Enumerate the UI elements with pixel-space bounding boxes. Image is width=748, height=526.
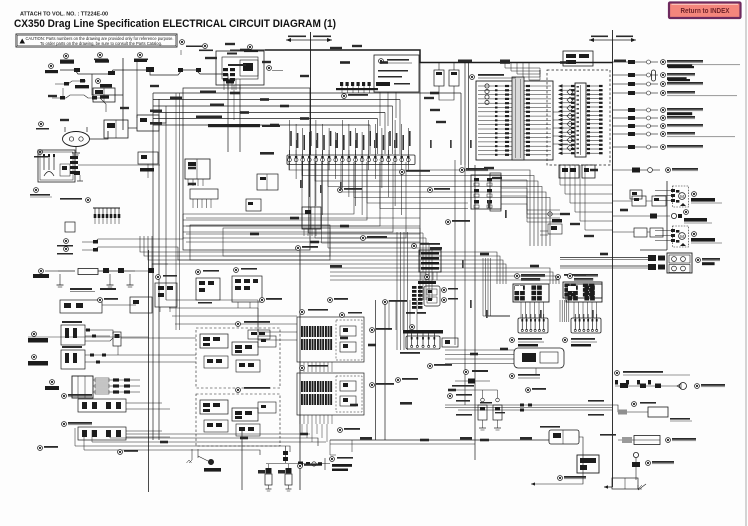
pin stack column bbox=[412, 286, 417, 289]
wire bundle: right side staircase to controller bbox=[468, 170, 530, 246]
wire: vertical trunk pair x462 x468 bbox=[464, 63, 466, 166]
ac connector plugs bbox=[648, 255, 656, 261]
hour meter chain bbox=[455, 380, 490, 382]
ECU pin rows left bbox=[559, 85, 575, 87]
inner routing box bbox=[223, 228, 330, 256]
right column extra smudge bars bbox=[668, 66, 694, 68]
long bundle to valve modules bbox=[140, 236, 497, 284]
wire bundle x397-407 vertical bbox=[396, 232, 398, 350]
V1 bottom label bbox=[510, 338, 515, 343]
engine stop unit box bbox=[65, 222, 75, 232]
SV0 bottom smudge bbox=[400, 352, 420, 354]
wire: mid vertical x300 bbox=[299, 250, 301, 490]
module2 right dashed bbox=[336, 376, 362, 412]
svg-text:M: M bbox=[680, 234, 684, 239]
junction cluster at bus head bbox=[340, 82, 343, 86]
CN-1 top label bbox=[470, 75, 475, 80]
left drops into bundle bbox=[109, 430, 111, 438]
start relay grid (engine room) bbox=[471, 175, 501, 209]
label near caution box bbox=[180, 40, 185, 45]
SV0 side box bbox=[442, 338, 458, 347]
module2 pins to bottom bundle bbox=[301, 424, 303, 434]
wiper link cluster x130 y300 bbox=[130, 297, 152, 313]
chain y98 bbox=[52, 95, 100, 98]
speaker label bbox=[695, 384, 700, 389]
connector row band outline bbox=[287, 155, 415, 165]
label bars top-left bbox=[60, 61, 74, 64]
long staircase bundle A bbox=[166, 300, 297, 316]
glow plug bus bbox=[93, 207, 120, 209]
upper small cluster y300 bbox=[60, 300, 102, 313]
wiper motor label bbox=[692, 232, 697, 237]
wire: bottom horizontal y444 bbox=[330, 443, 475, 445]
V2 solenoid bank bbox=[571, 318, 601, 333]
valve module V2 label bbox=[568, 274, 573, 279]
wire bundle ECU bottom to lower area bbox=[560, 165, 613, 185]
svg-text:M: M bbox=[680, 194, 684, 199]
wire bundle: bottom-left y433-450 bbox=[126, 433, 310, 435]
blower cluster small boxes bbox=[632, 196, 646, 206]
wire: heavy battery bus y62 bbox=[265, 50, 613, 63]
module2 bottom pin wires bbox=[299, 415, 301, 424]
sensor cluster CN35 bbox=[302, 207, 321, 229]
right column long underlines bbox=[667, 64, 740, 66]
ECU main tall connector bbox=[575, 83, 586, 157]
relay cluster RC2 x196 y278 bbox=[196, 270, 201, 275]
ECU bottom connector box 1 bbox=[559, 165, 579, 178]
starter aux marks bbox=[74, 171, 80, 175]
gps unit box bbox=[577, 455, 599, 473]
travel speed unit label bbox=[510, 374, 515, 379]
wire bundle from ECU to right devices bbox=[553, 111, 560, 113]
wire: left vertical x166 bbox=[165, 106, 167, 300]
slant wire to relay box bbox=[100, 98, 106, 112]
fuel sensor cluster 2 bbox=[61, 350, 85, 369]
module1 relay bank bbox=[301, 326, 303, 337]
chain right label bbox=[330, 457, 335, 462]
right fuse column chains bbox=[613, 61, 628, 63]
resistor pack solid box bbox=[72, 376, 93, 398]
wiper motor M2 bbox=[673, 226, 689, 247]
relay cluster RC3 x232 y276 bbox=[234, 268, 239, 273]
horn relay small box bbox=[630, 190, 642, 199]
chain y84 alternator bbox=[55, 81, 86, 84]
key switch right label bbox=[267, 66, 272, 71]
module1 right dashed bbox=[336, 320, 362, 360]
heater grid table bbox=[563, 282, 602, 298]
mirror heater lines y405-410 bbox=[445, 404, 612, 406]
battery relay box bbox=[104, 120, 128, 138]
travel speed solenoid unit bbox=[514, 348, 564, 368]
label bars mid bbox=[75, 85, 89, 88]
pressure switch P1 bbox=[268, 464, 270, 468]
fuse F2 chain bbox=[92, 70, 128, 74]
ECU pin rows right bbox=[586, 85, 602, 87]
wiper motor wires bbox=[655, 230, 671, 232]
pilot lever module 2 outline bbox=[297, 373, 364, 415]
connector CN30 pins bbox=[190, 189, 218, 199]
ac connector box bbox=[667, 253, 692, 273]
wire: vertical x465 bbox=[464, 165, 466, 405]
wires from relay bank to right bbox=[501, 180, 560, 210]
wire: vertical x385 bbox=[384, 300, 386, 440]
battery wires bbox=[90, 131, 109, 139]
key switch output drops bbox=[227, 85, 229, 152]
antenna element y480 bbox=[612, 478, 638, 489]
antenna label above bbox=[615, 371, 620, 376]
module1 labels bbox=[300, 310, 305, 315]
V1 solenoid bank bbox=[518, 318, 548, 333]
CN41 label bar bbox=[425, 275, 430, 280]
horn drop wires bbox=[191, 449, 193, 460]
valve module V1 label bbox=[515, 274, 520, 279]
switch labels bbox=[258, 470, 265, 474]
connector marks x285 bbox=[283, 451, 288, 455]
radio noise filter bbox=[612, 405, 648, 412]
SV0 label bar bbox=[410, 325, 415, 330]
travel alarm unit 2 clusters bbox=[200, 400, 228, 414]
wire bundle: mid routing horizontals bbox=[186, 217, 420, 219]
bar y98 bbox=[100, 96, 109, 99]
wires battery area to bus bbox=[128, 127, 137, 129]
fuse box output drops bbox=[379, 92, 381, 126]
extra area density smudges bbox=[205, 57, 217, 59]
key switch label smudges bbox=[227, 53, 237, 55]
pilot valve labels right bbox=[442, 288, 447, 293]
sensor wires rows bbox=[82, 239, 112, 242]
radio label bbox=[632, 402, 637, 407]
cluster 1 output wires bbox=[85, 330, 113, 334]
ECU top connector boxes bbox=[563, 51, 593, 66]
mirror heater connectors bbox=[520, 404, 524, 407]
wire x137 upper bbox=[136, 62, 138, 118]
starter coil symbols bbox=[43, 154, 45, 170]
starter S1 box bbox=[137, 115, 159, 131]
fuse holder rows x615-700 y382 small ticks bbox=[615, 380, 618, 385]
lamp cluster x548 y214 bbox=[548, 212, 552, 216]
gps label bbox=[558, 476, 563, 481]
starter output wire bbox=[78, 164, 160, 166]
CN-1 inner tall connector bbox=[512, 77, 524, 160]
hour meter label bbox=[464, 370, 469, 375]
wire pair below relays bbox=[439, 95, 454, 100]
wire: vertical x455 bbox=[454, 160, 456, 345]
CN-1 left pilot circles bbox=[485, 84, 489, 88]
page right edge bbox=[745, 0, 747, 526]
wire: vertical trunk A x310 bbox=[310, 32, 312, 155]
horn dot bbox=[198, 456, 208, 461]
wire: vertical drop x461 bbox=[460, 93, 462, 165]
coolant sensor cluster 1 bbox=[61, 325, 85, 345]
travel alarm 2 label bbox=[236, 388, 241, 393]
pressure switch feed line y463 bbox=[266, 463, 330, 465]
cigarette lighter cluster bbox=[549, 430, 579, 444]
incoming bundles to V1 V2 bbox=[483, 258, 510, 316]
wire: vertical trunk B x613 bbox=[612, 30, 614, 487]
wire bundle: down to valve area bbox=[302, 162, 420, 300]
sensor pair feed wires bbox=[482, 390, 484, 398]
starter connector stack bbox=[70, 156, 78, 159]
valve module V1 grid bbox=[513, 284, 549, 302]
ac lines to connector bbox=[560, 257, 648, 259]
node: frame split arrows right bbox=[589, 39, 636, 41]
solenoid cluster center top wires bbox=[388, 300, 390, 330]
water temp sender cluster bbox=[135, 264, 168, 271]
cluster 2 vertical join bbox=[117, 346, 119, 355]
wire: bus line y50 left tail bbox=[230, 49, 265, 51]
glow plugs GP1-7 bbox=[94, 208, 96, 216]
wire: lighter to gps L-route bbox=[531, 437, 583, 484]
V1 white cell bbox=[515, 286, 523, 291]
wire: vertical x242 bottom stub bbox=[241, 430, 243, 490]
wire: harness bus lines y93-125 bbox=[153, 99, 400, 101]
throttle potentiometer row 2 bbox=[62, 422, 67, 427]
relay cluster RC1 x160 y280 bbox=[156, 275, 161, 280]
travel alarm dashed enclosure 2 bbox=[196, 394, 280, 446]
left bottom dangling wires bbox=[330, 440, 336, 455]
resistor pack label bbox=[50, 380, 55, 385]
Return to INDEX button bbox=[669, 3, 741, 19]
bus label above comb bbox=[208, 124, 260, 127]
oil pressure labels bbox=[70, 288, 92, 290]
washer motor wires bbox=[655, 190, 671, 192]
fusible link F1 bbox=[60, 70, 92, 74]
label cluster left x40 y150 bbox=[38, 150, 43, 155]
speaker chain y386 bbox=[615, 385, 680, 387]
connector row CN-20 ticks bbox=[289, 150, 291, 164]
V2 bottom label bbox=[563, 338, 568, 343]
module2 relay bank bbox=[301, 381, 303, 392]
bottom right label bbox=[646, 461, 651, 466]
caution note box bbox=[16, 34, 177, 47]
wire: bottom-left turn of trunk B bbox=[604, 486, 613, 488]
ground symbol battery bbox=[75, 147, 77, 153]
V2 white cell bbox=[568, 286, 576, 291]
mid-left long wires to right bbox=[112, 214, 183, 239]
key switch SW1 cluster bbox=[216, 51, 264, 85]
travel speed staircase wires bbox=[445, 349, 514, 351]
wire: left vertical x159 bbox=[158, 99, 160, 440]
starter motor unit box bbox=[38, 150, 75, 182]
glow relay box bbox=[93, 88, 115, 102]
bottom diagonal mark bbox=[638, 484, 646, 490]
right cluster x138 y153 bbox=[138, 152, 158, 164]
starter label bbox=[34, 188, 39, 193]
wire drop to key switch bbox=[214, 74, 228, 85]
wire bundle: heavy bus drops to ECU bbox=[505, 63, 540, 71]
tuner chain y437 bbox=[618, 439, 660, 441]
svg-text:Return to INDEX: Return to INDEX bbox=[681, 6, 730, 15]
travel alarm unit 1 clusters bbox=[200, 334, 228, 348]
throttle potentiometer row 1 bbox=[62, 394, 67, 399]
starter motor B terminal wire bbox=[92, 74, 123, 95]
heater label bbox=[556, 275, 561, 280]
pilot valve nested boxes bbox=[424, 286, 440, 306]
connector row downward wires bbox=[289, 163, 291, 170]
pressure switch P2 bbox=[288, 464, 290, 468]
room lamp chain y216 bbox=[613, 215, 670, 217]
travel alarm dashed enclosure 1 bbox=[196, 328, 280, 388]
wires blower area bbox=[613, 200, 632, 202]
controller ECU U1 dashed enclosure bbox=[547, 70, 610, 165]
CN-1 mid black marks bbox=[495, 85, 498, 87]
V1 drop wires bbox=[520, 302, 522, 318]
relay bank vertical box bbox=[490, 173, 501, 211]
fuel sensor label 2 bbox=[32, 355, 37, 360]
second bundle to valve module 2 bbox=[330, 268, 550, 284]
battery BAT1 bbox=[63, 132, 90, 147]
wire: bottom long horizontal y440 bbox=[330, 439, 549, 441]
bottom right vertical detail bbox=[635, 458, 637, 480]
ECU inner diamonds bbox=[567, 89, 573, 95]
battery label bbox=[39, 122, 44, 127]
relay R3 bbox=[449, 70, 459, 86]
extra wire label dashes bbox=[240, 49, 250, 52]
ECU tall rect hatch bbox=[577, 86, 580, 88]
pressure sensor PS1 bbox=[481, 398, 485, 402]
diode D3 box bbox=[257, 174, 278, 190]
room lamp label bbox=[684, 210, 689, 215]
vertical wire x123 upper bbox=[122, 58, 124, 130]
solenoid bank SV0 bbox=[406, 336, 440, 349]
relay bank label bbox=[460, 168, 465, 173]
vertical x63 bbox=[62, 88, 64, 96]
wire: trunk x468 bbox=[468, 63, 470, 171]
ac connector label bbox=[696, 258, 701, 263]
wire: top trunk arrows left bbox=[286, 39, 332, 41]
valve module V2 grid bbox=[566, 284, 602, 302]
resistor block bbox=[246, 199, 261, 211]
CN41 label bbox=[412, 244, 417, 249]
relay cluster x560 y300 dense wiring bbox=[559, 300, 561, 322]
cluster 1 connector bbox=[113, 332, 121, 346]
horn label bar bbox=[204, 468, 221, 472]
cab harness connector module CN-1 bbox=[476, 81, 553, 160]
wire tick below caution bbox=[180, 50, 182, 55]
routing box lower bbox=[190, 225, 330, 260]
chain y464 right bbox=[298, 462, 303, 466]
wire: vertical x420 center bbox=[419, 62, 421, 255]
resistor pack output wires bbox=[93, 379, 140, 381]
wire: bus line y93 long to x461 bbox=[153, 92, 461, 94]
wire bundle left column to bottom bbox=[175, 93, 177, 330]
connector row upward wires with labels bbox=[289, 120, 291, 155]
wire: vertical x375 bbox=[375, 300, 377, 440]
connector CN101 bbox=[163, 70, 214, 75]
wire bundle: comb down to bottom-left bbox=[183, 162, 354, 214]
wire: mid vertical x148 bottom bbox=[148, 250, 150, 492]
label E3 bbox=[49, 64, 54, 69]
pilot lever module 1 outline bbox=[297, 317, 364, 362]
wire bundle: comb to right staircase bbox=[289, 162, 468, 170]
alternator cluster labels bbox=[64, 54, 69, 59]
pressure sensor labels bbox=[480, 402, 492, 404]
oil pressure drops and grounds bbox=[59, 274, 61, 285]
module2 labels bbox=[300, 366, 305, 371]
cab frame outline box bbox=[183, 88, 310, 250]
V2 drop wires bbox=[573, 302, 575, 318]
cluster 2 output wires bbox=[85, 354, 196, 356]
scatter labels top area bbox=[342, 94, 347, 99]
radio feed smudges bbox=[588, 400, 604, 402]
condenser cluster y232 bbox=[634, 228, 647, 237]
key switch contact blobs bbox=[223, 68, 228, 71]
small black wire labels on buses bbox=[200, 91, 216, 94]
stack bottom smudges bbox=[406, 312, 415, 314]
coolant sensor label 1 bbox=[32, 332, 37, 337]
engine harness relay R5 bbox=[185, 159, 210, 179]
fuse box FB1 bbox=[374, 55, 419, 92]
svg-text:ATTACH TO VOL. NO. : TT224E-00: ATTACH TO VOL. NO. : TT224E-00 bbox=[20, 12, 108, 18]
washer motor M1 bbox=[673, 186, 689, 207]
svg-text:CX350 Drag Line Specification: CX350 Drag Line Specification ELECTRICAL… bbox=[14, 18, 336, 30]
line labels y400 bbox=[456, 400, 470, 402]
travel alarm 1 label bbox=[236, 322, 241, 327]
svg-text:To order parts on the drawing,: To order parts on the drawing, be sure t… bbox=[40, 41, 162, 46]
washer motor label bbox=[692, 192, 697, 197]
radio unit box bbox=[648, 407, 668, 417]
device enclosure right edge bbox=[666, 181, 668, 250]
relay R10 bbox=[128, 70, 163, 75]
pressure connector CN41 dense bbox=[419, 250, 441, 272]
ECU bottom connector box 2 bbox=[582, 165, 595, 178]
pressure sensor PS2 bbox=[496, 398, 500, 402]
right column labels bbox=[661, 60, 666, 65]
relay pill x653 bbox=[652, 70, 656, 81]
wire: vertical x475 bbox=[474, 165, 476, 460]
module1 bottom pin wires bbox=[299, 362, 301, 372]
wire: top trunk arrow right bbox=[327, 38, 332, 42]
wire: left vertical pair x153 bbox=[152, 93, 154, 440]
oil pressure chain y271 bbox=[45, 270, 58, 272]
rotated wire tag smudges bbox=[296, 140, 298, 148]
glow plug label bbox=[86, 198, 91, 203]
wire: harness bus drops to connector row bbox=[399, 100, 401, 155]
wiper relay chain y170 bbox=[613, 169, 632, 171]
CN-1 pin rows bbox=[478, 85, 512, 87]
relay R2 bbox=[434, 70, 444, 86]
